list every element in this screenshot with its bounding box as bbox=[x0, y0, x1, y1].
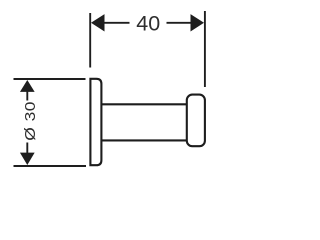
svg-text:40: 40 bbox=[136, 12, 160, 36]
svg-text:Ø 30: Ø 30 bbox=[23, 101, 38, 141]
